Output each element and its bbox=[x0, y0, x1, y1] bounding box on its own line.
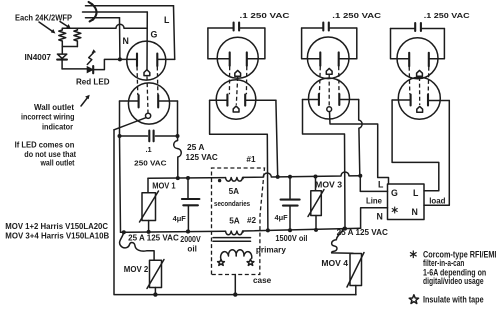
fuse F1 25A 125VAC bbox=[174, 136, 182, 178]
capacitor C6 4uF right bbox=[289, 177, 291, 200]
left ground rail bbox=[114, 130, 356, 295]
inductor T1 secondary #1 (in L bus) bbox=[226, 177, 244, 181]
svg-text:primary: primary bbox=[256, 246, 286, 255]
wire L from plug down right side of outlet 1 bbox=[174, 6, 175, 60]
svg-text:#1: #1 bbox=[246, 155, 256, 164]
outlet O4 load N wire bbox=[424, 101, 449, 206]
svg-text:L: L bbox=[413, 188, 419, 198]
svg-text:5A: 5A bbox=[229, 187, 240, 196]
svg-text:MOV 3+4 Harris V150LA10B: MOV 3+4 Harris V150LA10B bbox=[5, 232, 109, 241]
svg-text:#2: #2 bbox=[247, 216, 257, 225]
arrow to Red LED label bbox=[81, 97, 88, 106]
outlet O1 bottom right slot bbox=[157, 95, 159, 107]
filter box U1 bbox=[388, 184, 425, 220]
outlet O1 top left slot bbox=[136, 54, 138, 67]
svg-text:wall outlet: wall outlet bbox=[40, 159, 75, 168]
inductor T1 secondary #2 (in N bus) bbox=[226, 231, 244, 235]
wire G from plug down to outlet 1 ground bbox=[146, 12, 148, 70]
arrow to R1 bbox=[39, 22, 53, 32]
svg-text:Red LED: Red LED bbox=[76, 78, 110, 87]
svg-text:250 VAC: 250 VAC bbox=[134, 159, 167, 168]
svg-text:4μF: 4μF bbox=[275, 213, 289, 222]
node junction right of capacitor C1 bbox=[176, 134, 180, 138]
svg-text:digital/video usage: digital/video usage bbox=[423, 276, 484, 286]
MOV 3 bbox=[315, 177, 317, 191]
wire LED to node N bbox=[93, 59, 137, 69]
junction dots on L bus bbox=[176, 176, 180, 180]
phasing dot bbox=[218, 179, 221, 182]
plug P1 (wall plug into outlet) bbox=[83, 2, 174, 21]
wire resistor top bus to G line with hop over N bbox=[62, 24, 147, 28]
svg-text:125 VAC: 125 VAC bbox=[186, 153, 218, 162]
svg-text:25 A 125 VAC: 25 A 125 VAC bbox=[128, 233, 179, 242]
svg-text:N: N bbox=[412, 207, 418, 217]
outlet O1 top receptacle (wall outlet) bbox=[127, 41, 166, 80]
legend asterisk bbox=[410, 251, 417, 259]
line L wire into box bbox=[360, 176, 387, 192]
outlet O3 top receptacle bbox=[307, 37, 349, 79]
dashed filter can outline bbox=[212, 168, 265, 275]
svg-text:Each 24K/2WFP: Each 24K/2WFP bbox=[15, 14, 72, 23]
L bus with hops at x266 and x345 bbox=[148, 172, 360, 178]
svg-text:4μF: 4μF bbox=[173, 214, 187, 223]
star insulate mark left bbox=[218, 259, 225, 265]
svg-text:oil: oil bbox=[187, 245, 197, 254]
wire joining resistor bottoms bbox=[62, 46, 77, 48]
wire N from plug down to node N bbox=[119, 18, 121, 60]
LED D2 red bbox=[87, 67, 93, 73]
outlet O4 load L wire bbox=[392, 100, 439, 191]
svg-text:secondaries: secondaries bbox=[214, 199, 250, 208]
ground wire from outlet O3 to filter box bbox=[330, 112, 389, 184]
capacitor C1 .1 250VAC wire bbox=[120, 135, 148, 137]
svg-text:L: L bbox=[164, 15, 170, 25]
resistor R1 24K/2W bbox=[59, 28, 66, 46]
svg-text:1500V oil: 1500V oil bbox=[275, 234, 307, 243]
MOV 4 bbox=[350, 254, 362, 286]
fuse F3 25A 125VAC (N side right) bbox=[332, 229, 353, 254]
transformer primary winding bbox=[221, 250, 252, 259]
outlet O2 bottom receptacle bbox=[216, 80, 256, 120]
svg-text:L: L bbox=[378, 180, 384, 190]
svg-text:2000V: 2000V bbox=[180, 235, 201, 244]
legend star bbox=[409, 295, 418, 304]
line N wire into box bbox=[361, 208, 388, 229]
outlet O3 bottom receptacle bbox=[309, 78, 350, 119]
arrow to R2 bbox=[60, 22, 69, 28]
fuse F2 25A 125VAC (N side left) bbox=[122, 230, 126, 234]
svg-text:If LED comes on: If LED comes on bbox=[15, 141, 75, 150]
capacitor C1 plates bbox=[148, 131, 150, 142]
outlet O3 N path bbox=[303, 100, 346, 229]
svg-text:25 A 125 VAC: 25 A 125 VAC bbox=[337, 228, 388, 237]
outlet O2 N path: left slot down and across and down to N bus bbox=[210, 100, 268, 230]
svg-text:IN4007: IN4007 bbox=[25, 53, 52, 62]
svg-text:MOV 3: MOV 3 bbox=[315, 181, 342, 190]
outlet O3 L path with hop over ground wire bbox=[359, 100, 362, 176]
junction dots on N bus bbox=[186, 230, 190, 234]
outlet O3 ground pin bbox=[327, 107, 332, 112]
outlet O1 internal dashed straps bbox=[136, 67, 139, 96]
svg-text:.1 250 VAC: .1 250 VAC bbox=[240, 11, 291, 20]
case wire to ground rail bbox=[234, 275, 236, 295]
svg-text:case: case bbox=[253, 276, 272, 285]
node junction left of capacitor C1 bbox=[118, 134, 122, 138]
N bus bbox=[121, 228, 361, 232]
asterisk in box bbox=[392, 207, 398, 214]
transformer core lines bbox=[213, 237, 251, 239]
svg-text:Insulate with tape: Insulate with tape bbox=[423, 295, 484, 305]
MOV 2 bbox=[150, 260, 162, 287]
svg-text:Wall outlet: Wall outlet bbox=[34, 103, 74, 112]
LED arrow bbox=[87, 53, 93, 65]
svg-text:MOV 4: MOV 4 bbox=[321, 259, 348, 268]
resistor R2 24K/2W bbox=[74, 28, 81, 46]
star insulate mark right bbox=[247, 259, 254, 265]
outlet O2 top receptacle bbox=[217, 37, 258, 78]
diode D1 IN4007 bbox=[61, 47, 63, 54]
svg-text:.1: .1 bbox=[146, 145, 152, 154]
outlet O1 bottom receptacle bbox=[128, 83, 169, 124]
outlet O1 top right slot bbox=[156, 54, 158, 67]
svg-text:N: N bbox=[123, 36, 129, 46]
svg-text:.1 250 VAC: .1 250 VAC bbox=[424, 11, 471, 20]
svg-text:MOV 2: MOV 2 bbox=[124, 265, 149, 274]
outlet O1 bottom ground pin bbox=[146, 113, 151, 118]
svg-text:Line: Line bbox=[366, 196, 382, 205]
svg-text:load: load bbox=[429, 197, 445, 206]
svg-text:MOV 1+2 Harris V150LA20C: MOV 1+2 Harris V150LA20C bbox=[5, 222, 108, 231]
svg-text:indicator: indicator bbox=[42, 123, 74, 132]
outlet O4 top receptacle bbox=[397, 38, 438, 79]
svg-text:G: G bbox=[391, 188, 398, 198]
outlet O1 top ground pin bbox=[144, 70, 150, 76]
wire diode to LED bbox=[62, 68, 87, 70]
outlet O1 bottom left slot bbox=[138, 95, 140, 107]
svg-text:25 A: 25 A bbox=[187, 143, 205, 152]
svg-text:incorrect wiring: incorrect wiring bbox=[21, 113, 75, 122]
capacitor C2 4uF left bbox=[187, 178, 189, 199]
outlet O4 bottom receptacle bbox=[398, 77, 440, 119]
MOV 1 bbox=[147, 178, 149, 193]
svg-text:G: G bbox=[151, 30, 158, 40]
node N junction bbox=[118, 57, 122, 61]
ground diagonal wire from outlet O1 bbox=[114, 118, 146, 130]
svg-text:.1 250 VAC: .1 250 VAC bbox=[332, 11, 382, 20]
svg-text:N: N bbox=[377, 212, 383, 222]
svg-text:5A: 5A bbox=[229, 216, 240, 225]
svg-text:MOV 1: MOV 1 bbox=[152, 181, 176, 190]
outlet O2 L path: right slot down to L bus bbox=[276, 100, 278, 177]
wire L down right side bbox=[177, 101, 179, 136]
left N rail bbox=[120, 136, 121, 232]
wire N down left side bbox=[119, 101, 121, 136]
